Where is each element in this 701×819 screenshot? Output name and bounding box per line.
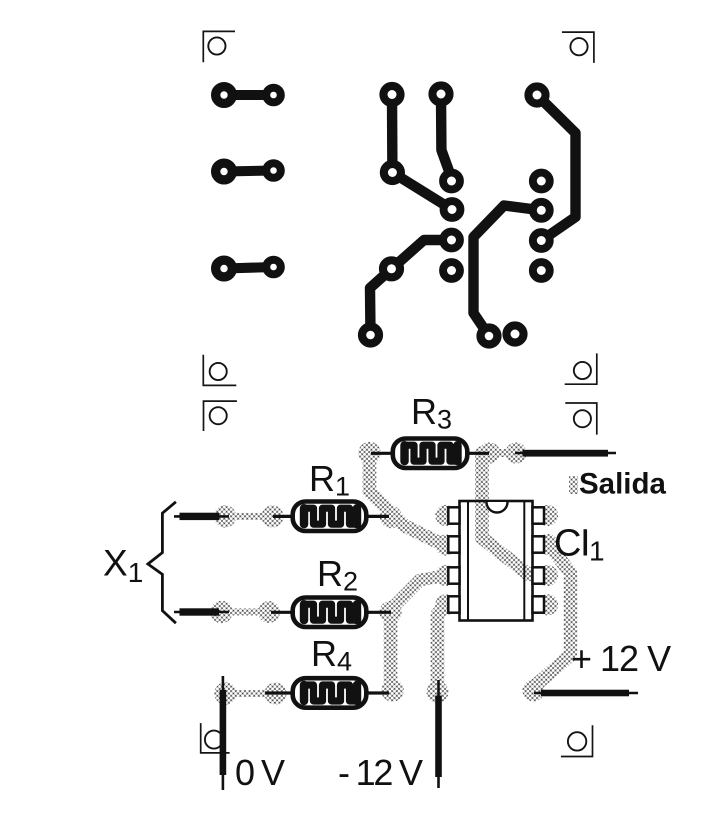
IC pad 5 (530, 259, 552, 281)
pad mid junction (381, 161, 404, 184)
svg-text:+ 12 V: + 12 V (571, 638, 671, 679)
corner mark top-left of component board (204, 401, 237, 431)
IC pin 5 (533, 596, 545, 612)
pad top-row C (526, 84, 549, 107)
wire +12V (534, 690, 638, 697)
wire trace: pad R1-in down to pad junction then to IC pin 2 (392, 95, 452, 210)
corner mark bottom-right of copper board (565, 353, 597, 384)
connector brace X1 (148, 502, 176, 623)
resistor R1 (273, 502, 389, 532)
corner mark bottom-left of copper board (203, 355, 236, 386)
GRAY TRACES (seen through board) (210, 442, 578, 705)
pad ground junction (380, 257, 403, 280)
shadow speck near Salida (569, 476, 578, 494)
IC pad 2 (441, 198, 463, 220)
IC pad 6 (530, 229, 552, 251)
resistor R2 (271, 598, 391, 628)
pad spare bottom (504, 323, 527, 346)
wire trace: pad R1-top down-right to IC pin 1 (441, 94, 452, 178)
IC pin 2 (448, 536, 459, 552)
pad-pair trace row 1 (input 1) (212, 83, 284, 107)
wire 0V (220, 676, 227, 790)
shadow trace: R2 right down to R4 right (381, 612, 403, 702)
IC pad 3 (440, 229, 462, 251)
IC pin 7 (533, 536, 545, 552)
shadow trace: R2 right to IC pin3 (379, 565, 456, 623)
shadow trace: output pads to IC pin6 (479, 442, 558, 586)
svg-text:- 12 V: - 12 V (338, 752, 423, 793)
shadow trace: input1 pads (214, 505, 284, 527)
IC pin 1 (448, 507, 459, 523)
shadow trace: +12V up to IC pin7 (523, 534, 571, 702)
shadow trace: 0V to R4 pads (214, 682, 286, 704)
corner mark bottom-left of component board (201, 723, 230, 753)
pad-pair trace row 3 (0 V) (212, 257, 284, 281)
shadow pad: IC pin1 (435, 505, 456, 526)
resistor R3 (371, 439, 489, 469)
pad-pair trace row 2 (input 2) (212, 160, 284, 184)
IC pin 3 (448, 567, 459, 583)
wire input 1 (174, 513, 229, 520)
corner mark top-right of component board (565, 403, 597, 435)
wire trace: IC pin 3 left to pads (ground net) (370, 240, 452, 335)
wire -12V (435, 680, 442, 788)
resistor R4 (265, 678, 389, 708)
corner mark top-right (562, 32, 594, 63)
wire trace: top-right pad down to IC pin 6 (output) (537, 95, 576, 241)
corner mark bottom-right of component board (561, 725, 593, 756)
corner mark top-left (board outline corner + drill circle) (203, 31, 235, 62)
pad ground bottom (359, 324, 382, 347)
shadow pad: IC pin8 (537, 505, 558, 526)
pad -12V bottom (478, 325, 501, 348)
op-amp IC CI1 body (460, 500, 544, 621)
wire trace: bottom pad up to IC pin 7 (+12V) (474, 206, 542, 337)
shadow trace: R3 left + R1 right to IC pin2 (358, 442, 456, 556)
IC pin 8 (533, 507, 545, 523)
pad top-row B (430, 83, 453, 106)
wire input 2 (174, 608, 229, 615)
IC pad 7 (530, 199, 552, 221)
shadow trace: input2 pads (210, 601, 280, 623)
IC pin 4 (448, 596, 459, 612)
IC pad 4 (440, 259, 462, 281)
IC pad 8 (530, 170, 552, 192)
pad top-row A (381, 83, 404, 106)
svg-text:Salida: Salida (579, 468, 666, 501)
shadow trace through IC body to pin6 (482, 500, 543, 576)
shadow trace: -12V up to IC pin4 (427, 594, 457, 703)
shadow pad: IC pin5 (537, 594, 558, 615)
svg-text:0 V: 0 V (235, 752, 285, 793)
wire Salida output (515, 450, 616, 457)
IC pad 1 (440, 170, 462, 192)
IC pin 6 (533, 567, 545, 583)
